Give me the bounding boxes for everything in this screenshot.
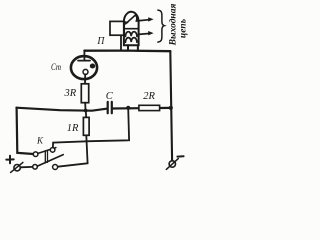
- svg-text:П: П: [96, 36, 105, 47]
- svg-text:C: C: [106, 91, 114, 102]
- node C-2R junction: [126, 106, 130, 110]
- switch K lower lever: [37, 155, 63, 167]
- resistor 1R: [83, 117, 89, 135]
- svg-text:1R: 1R: [67, 123, 79, 134]
- relay contact lever: [126, 15, 137, 24]
- tube anode bar: [78, 60, 90, 62]
- switch K upper-right contact: [50, 148, 55, 153]
- label plus sign: [6, 156, 13, 163]
- wire coil output: [139, 33, 149, 36]
- node 2R-rail junction: [169, 106, 173, 110]
- relay divider: [124, 28, 139, 30]
- tube anode lead: [83, 51, 85, 61]
- switch K upper lever: [38, 148, 56, 154]
- capacitor C right plate: [111, 102, 113, 113]
- svg-text:К: К: [36, 136, 44, 146]
- relay coil row 2: [125, 38, 136, 43]
- tube cathode lead: [84, 74, 86, 84]
- terminal minus: [169, 161, 175, 167]
- terminal plus slash: [11, 162, 23, 172]
- relay coil row 1: [125, 32, 136, 37]
- relay right foot: [137, 45, 139, 51]
- arrow contact output: [148, 17, 153, 21]
- resistor 3R: [81, 84, 88, 103]
- wire 1R to lower switch pole: [58, 135, 88, 166]
- node 3R-bus junction: [84, 109, 88, 113]
- tube gas dot: [90, 64, 95, 69]
- terminal minus slash: [166, 159, 178, 170]
- switch K lower-left contact: [33, 165, 38, 170]
- wire bus capacitor-to-rail: [113, 107, 171, 110]
- switch K lower-right contact: [53, 165, 58, 170]
- svg-text:2R: 2R: [143, 91, 155, 102]
- svg-text:цепь: цепь: [179, 18, 189, 38]
- arrow coil output: [148, 31, 153, 35]
- relay П body outline: [124, 12, 139, 46]
- relay left foot: [127, 45, 129, 50]
- wire 3R bottom lead: [84, 103, 86, 111]
- wire contact output: [136, 20, 149, 21]
- wire main bus: [16, 108, 106, 111]
- wire switch to C junction: [53, 108, 129, 148]
- wire left rail: [17, 108, 34, 154]
- wire anode top run: [84, 49, 170, 52]
- capacitor C left plate: [107, 102, 109, 113]
- svg-text:Выходная: Выходная: [168, 4, 179, 47]
- switch K upper-left contact: [33, 152, 38, 157]
- svg-text:Ст: Ст: [51, 63, 61, 73]
- switch K link: [45, 150, 47, 163]
- tube Ст envelope: [71, 56, 97, 79]
- wire rectangle drop: [120, 35, 122, 50]
- label minus sign: [177, 155, 183, 157]
- resistor 2R: [139, 105, 160, 110]
- brace output circuit: [158, 10, 164, 42]
- wire right rail: [170, 51, 172, 160]
- wire plus terminal to switch: [20, 166, 32, 168]
- terminal plus: [14, 165, 20, 171]
- relay П armature box: [110, 21, 124, 35]
- svg-text:3R: 3R: [64, 88, 77, 99]
- wire 1R top lead: [85, 111, 87, 118]
- relay contact lead-in: [124, 21, 128, 24]
- tube cathode circle: [83, 69, 88, 74]
